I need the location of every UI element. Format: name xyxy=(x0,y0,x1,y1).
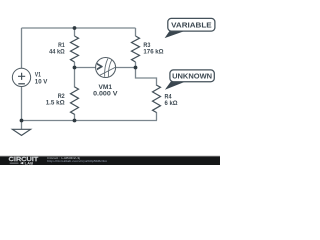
wire R3 to node C xyxy=(135,62,137,68)
wire R1 branch xyxy=(74,28,76,36)
wire R1 to node B xyxy=(74,62,76,68)
svg-text:LAB: LAB xyxy=(25,161,34,165)
svg-text:176 kΩ: 176 kΩ xyxy=(143,49,163,56)
svg-text:VARIABLE: VARIABLE xyxy=(171,20,212,29)
voltmeter VM1 xyxy=(96,58,116,78)
svg-text:1.5 kΩ: 1.5 kΩ xyxy=(46,99,65,106)
voltage source V1 xyxy=(12,68,30,86)
svg-text:6 kΩ: 6 kΩ xyxy=(165,100,178,107)
wire node B to R2 xyxy=(74,68,76,88)
junction R2 bottom rail xyxy=(73,119,77,123)
wire R4 to bottom rail xyxy=(156,112,158,120)
svg-text:UNKNOWN: UNKNOWN xyxy=(172,72,212,81)
wire R2 to bottom rail xyxy=(74,114,76,121)
wire bottom rail ground net xyxy=(22,120,158,122)
watermark CircuitLab logo xyxy=(9,157,40,165)
callout VARIABLE xyxy=(165,18,215,38)
junction node C xyxy=(134,66,138,70)
junction ground bottom rail xyxy=(20,119,24,123)
watermark info text xyxy=(47,156,108,163)
junction R1 top rail xyxy=(73,26,77,30)
wire left rail upper xyxy=(21,28,23,68)
svg-text:44 kΩ: 44 kΩ xyxy=(49,49,65,56)
wire top rail node A xyxy=(22,27,136,29)
junction node B xyxy=(73,66,77,70)
wire left rail lower xyxy=(21,86,23,121)
wire node C jog to R4 xyxy=(136,68,157,86)
resistor R1 xyxy=(71,36,79,62)
svg-text:10 V: 10 V xyxy=(35,79,48,86)
svg-text:0.000 V: 0.000 V xyxy=(93,91,118,98)
wire node B to voltmeter xyxy=(75,67,96,69)
resistor R4 xyxy=(153,85,161,112)
resistor R2 xyxy=(71,87,79,114)
wire voltmeter to node C xyxy=(116,67,136,69)
callout UNKNOWN xyxy=(165,70,214,90)
resistor R3 xyxy=(132,36,140,62)
ground xyxy=(12,121,30,136)
wire R3 branch top xyxy=(135,28,137,36)
svg-text:http://circuitlab.com/crp243p5: http://circuitlab.com/crp243p5b8c3m xyxy=(47,159,108,163)
